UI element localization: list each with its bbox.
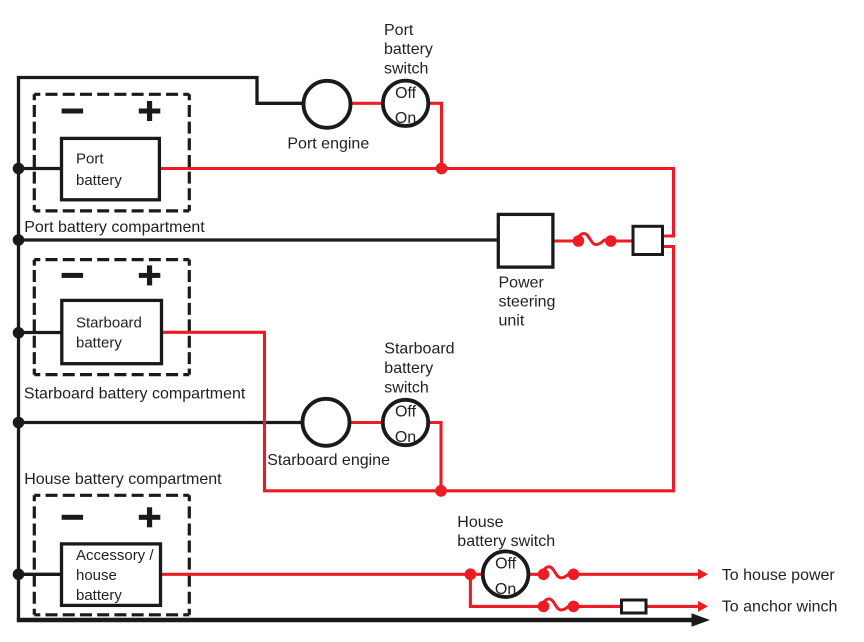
svg-text:House: House: [457, 514, 503, 531]
svg-text:House battery compartment: House battery compartment: [24, 471, 222, 488]
svg-text:Port: Port: [384, 22, 414, 39]
svg-text:house: house: [76, 567, 117, 584]
svg-text:battery: battery: [384, 360, 433, 377]
svg-text:To house power: To house power: [722, 567, 836, 584]
svg-text:Starboard engine: Starboard engine: [267, 452, 390, 469]
svg-text:Port engine: Port engine: [287, 135, 369, 152]
svg-text:battery: battery: [76, 335, 122, 352]
svg-text:battery: battery: [384, 41, 433, 58]
svg-text:unit: unit: [499, 313, 525, 330]
svg-text:Port: Port: [76, 151, 104, 168]
svg-text:To anchor winch: To anchor winch: [722, 599, 838, 616]
svg-text:Port battery compartment: Port battery compartment: [24, 219, 205, 236]
svg-text:On: On: [395, 110, 416, 127]
svg-text:switch: switch: [384, 379, 428, 396]
svg-text:battery: battery: [76, 587, 122, 604]
svg-text:Starboard battery compartment: Starboard battery compartment: [24, 386, 246, 403]
svg-text:Starboard: Starboard: [384, 341, 454, 358]
svg-text:Off: Off: [395, 403, 417, 420]
svg-text:On: On: [395, 429, 416, 446]
svg-text:Off: Off: [395, 85, 417, 102]
svg-text:battery: battery: [76, 172, 122, 189]
svg-text:Starboard: Starboard: [76, 315, 142, 332]
svg-text:On: On: [495, 581, 516, 598]
svg-text:battery switch: battery switch: [457, 533, 555, 550]
svg-text:Off: Off: [495, 556, 517, 573]
svg-text:switch: switch: [384, 60, 428, 77]
svg-text:steering: steering: [499, 294, 556, 311]
svg-text:Power: Power: [499, 275, 545, 292]
svg-text:Accessory /: Accessory /: [76, 547, 154, 564]
